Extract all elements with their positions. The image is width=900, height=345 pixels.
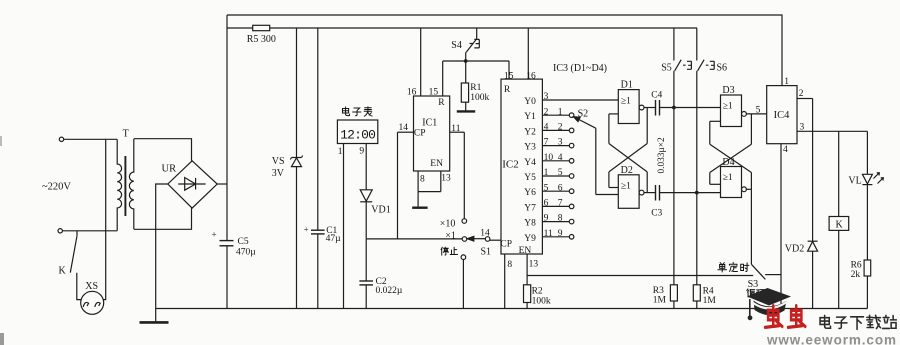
- svg-text:7: 7: [558, 199, 563, 209]
- svg-text:15: 15: [504, 71, 514, 81]
- svg-text:9: 9: [558, 229, 563, 239]
- svg-text:8: 8: [558, 214, 563, 224]
- watermark graduation cap: [747, 288, 791, 306]
- wire D4 output down to S3: [746, 188, 751, 190]
- svg-text:×1: ×1: [445, 231, 456, 242]
- wire IC1 pins 8,13 to ground: [417, 171, 419, 192]
- svg-text:1: 1: [558, 107, 563, 117]
- svg-text:R: R: [504, 85, 511, 95]
- S1 pole: [485, 237, 490, 242]
- wire IC2 pin8 to ground rail: [504, 254, 506, 309]
- svg-text:47µ: 47µ: [326, 234, 342, 244]
- svg-text:470µ: 470µ: [236, 247, 256, 257]
- svg-text:D3: D3: [722, 85, 734, 96]
- svg-text:VS: VS: [272, 156, 285, 167]
- D2 output bubble: [639, 190, 644, 195]
- relay K: [838, 131, 840, 216]
- svg-text:~220V: ~220V: [42, 182, 71, 193]
- svg-text:VD2: VD2: [785, 243, 804, 254]
- switch S6: [696, 28, 698, 61]
- wire S6 line down to R4: [696, 193, 698, 285]
- svg-text:+: +: [304, 224, 309, 234]
- svg-text:Y3: Y3: [524, 143, 536, 153]
- svg-text:4: 4: [783, 145, 788, 155]
- contact 9 of S2: [569, 235, 574, 240]
- svg-text:K: K: [59, 266, 67, 277]
- svg-text:Y4: Y4: [524, 158, 536, 168]
- svg-text:15: 15: [429, 88, 439, 98]
- wire clock pin9 to VD1: [365, 144, 367, 190]
- svg-text:13: 13: [441, 174, 451, 184]
- NOR gate D1: [618, 90, 639, 124]
- label tingzhi (stop): [441, 247, 448, 255]
- wire clock signal line to S1 x1 contact: [366, 238, 462, 240]
- wire left +V rail: [226, 15, 228, 241]
- diode VD2: [808, 240, 818, 242]
- LED arrows: [874, 173, 880, 179]
- svg-text:CP: CP: [414, 129, 426, 139]
- contact x10 of S1: [462, 219, 467, 224]
- wire IC1 pin16 to +V rail: [420, 28, 422, 96]
- svg-text:2k: 2k: [851, 270, 861, 280]
- contact stop of S1: [461, 255, 466, 260]
- resistor R4: [693, 285, 700, 301]
- capacitor C1: [317, 28, 319, 230]
- svg-text:12:00: 12:00: [340, 128, 375, 143]
- svg-text:IC2: IC2: [502, 158, 519, 170]
- switch S4: [476, 28, 478, 39]
- power rail top (unregulated +V to IC4 pin1): [227, 15, 782, 86]
- svg-text:EN: EN: [430, 159, 443, 169]
- svg-text:16: 16: [526, 71, 536, 81]
- svg-text:1: 1: [544, 168, 549, 178]
- wire secondary top to bridge: [134, 139, 192, 161]
- svg-text:T: T: [123, 128, 129, 139]
- svg-text:≥1: ≥1: [621, 96, 631, 106]
- contact 3 of S2: [569, 143, 574, 148]
- svg-text:2: 2: [558, 123, 563, 133]
- wire secondary bottom to bridge: [134, 208, 192, 229]
- svg-text:Y1: Y1: [524, 112, 536, 122]
- NOR gate D2: [618, 175, 639, 209]
- node C3/S6/R4: [695, 191, 699, 195]
- watermark text dianzi xiazai zhan: [820, 315, 830, 328]
- IC1 divider: [414, 96, 450, 171]
- wire XS socket right lead: [100, 139, 106, 299]
- capacitor C4: [655, 100, 657, 116]
- wire bridge minus to ground: [156, 184, 168, 309]
- svg-text:XS: XS: [85, 281, 98, 292]
- svg-text:13: 13: [529, 259, 539, 269]
- svg-text:R4: R4: [703, 286, 714, 296]
- transformer T core: [124, 156, 126, 216]
- watermark text chongchong: [765, 306, 782, 328]
- switch S3 blade: [751, 264, 765, 279]
- svg-text:IC1: IC1: [422, 117, 437, 128]
- contact 1 of S2: [569, 113, 574, 118]
- svg-text:0.022µ: 0.022µ: [376, 286, 403, 296]
- wire IC4 pin4 to ground rail: [780, 144, 782, 309]
- contact 6 of S2: [569, 189, 574, 194]
- scan edge marks: [0, 333, 4, 345]
- svg-text:R1: R1: [470, 83, 481, 93]
- svg-text:8: 8: [420, 174, 425, 184]
- wire +V rail (after R5): [227, 27, 253, 29]
- svg-text:≥1: ≥1: [723, 101, 733, 111]
- svg-text:D1: D1: [621, 80, 633, 91]
- wire IC2 pin16 to +V rail: [527, 28, 529, 79]
- svg-text:9: 9: [359, 147, 364, 157]
- svg-text:16: 16: [407, 88, 417, 98]
- D1 output bubble: [639, 105, 644, 110]
- svg-text:≥1: ≥1: [723, 173, 733, 183]
- svg-text:R5 300: R5 300: [247, 34, 276, 45]
- svg-text:5: 5: [756, 105, 761, 115]
- svg-text:S4: S4: [451, 40, 462, 51]
- D3 output bubble: [742, 112, 747, 117]
- resistor R3: [670, 285, 677, 301]
- resistor R1: [465, 61, 467, 83]
- transformer T primary: [117, 139, 121, 231]
- svg-text:VD1: VD1: [371, 205, 390, 216]
- wire IC4 pin3 output: [797, 130, 867, 132]
- svg-text:C3: C3: [651, 208, 662, 218]
- contact 5 of S2: [569, 174, 574, 179]
- svg-text:2: 2: [799, 89, 804, 99]
- S4 linkage symbol: [470, 39, 480, 48]
- svg-text:14: 14: [399, 123, 409, 133]
- svg-text:R3: R3: [653, 286, 664, 296]
- svg-text:IC3 (D1~D4): IC3 (D1~D4): [553, 63, 607, 74]
- svg-text:+: +: [212, 230, 217, 240]
- node S4 output: [464, 59, 468, 63]
- svg-text:3: 3: [558, 138, 563, 148]
- svg-text:www.eeworm.com: www.eeworm.com: [766, 333, 897, 345]
- wire IC4 pin2 to VD2: [797, 98, 813, 100]
- socket XS: [81, 291, 104, 314]
- svg-text:UR: UR: [162, 164, 177, 175]
- capacitor C3: [655, 185, 657, 201]
- resistor R6: [864, 260, 871, 276]
- svg-text:4: 4: [544, 123, 549, 133]
- svg-text:0.033µ×2: 0.033µ×2: [657, 137, 667, 174]
- svg-text:Y6: Y6: [524, 188, 536, 198]
- svg-text:R: R: [438, 98, 445, 108]
- wire C3 to D4 input: [660, 192, 721, 194]
- node C4/S5/R3: [672, 106, 676, 110]
- wire clock pin1 to ground rail: [343, 144, 345, 309]
- contact x1 of S1: [462, 237, 467, 242]
- ground under R1: [457, 110, 475, 112]
- svg-text:Y7: Y7: [524, 203, 536, 213]
- wire bridge plus to +V rail: [217, 183, 227, 185]
- S6 linkage symbol: [706, 61, 714, 69]
- svg-text:2: 2: [544, 107, 549, 117]
- svg-text:1: 1: [784, 77, 789, 87]
- svg-text:CP: CP: [500, 239, 512, 249]
- terminal L of ~220V input: [59, 137, 63, 141]
- svg-text:100k: 100k: [470, 93, 489, 103]
- svg-text:S3: S3: [748, 279, 759, 290]
- wire S1 pole to IC2 CP: [490, 239, 501, 241]
- svg-text:D4: D4: [722, 157, 734, 168]
- LED VL: [866, 131, 868, 174]
- S5 linkage symbol: [683, 61, 691, 69]
- wire stop contact to ground rail: [462, 260, 464, 309]
- label dandingshi (single timing): [718, 263, 727, 272]
- transformer T secondary: [129, 139, 133, 230]
- svg-text:IC4: IC4: [774, 110, 791, 121]
- svg-text:S1: S1: [481, 247, 492, 258]
- electronic clock block (dianzibiao): [337, 120, 377, 144]
- svg-text:C4: C4: [651, 90, 662, 100]
- svg-text:EN: EN: [519, 246, 532, 256]
- contact 2 of S2: [569, 128, 574, 133]
- capacitor C2: [365, 239, 367, 281]
- cross-coupling D1/D2: [609, 113, 618, 115]
- wire D1 output to C4: [644, 107, 656, 109]
- svg-text:Y8: Y8: [524, 219, 536, 229]
- svg-text:VL: VL: [848, 176, 861, 187]
- wire S5 line down to R3: [673, 108, 675, 285]
- svg-text:C5: C5: [238, 237, 249, 247]
- terminal N of ~220V input: [58, 229, 62, 233]
- svg-text:5: 5: [544, 183, 549, 193]
- label dianzibiao: [342, 107, 349, 116]
- svg-text:8: 8: [507, 260, 512, 270]
- svg-text:S5: S5: [661, 62, 672, 73]
- svg-text:K: K: [836, 219, 844, 230]
- wire D2 output to C3: [644, 192, 656, 194]
- IC2 decade counter: [501, 79, 542, 254]
- contact 8 of S2: [569, 219, 574, 224]
- wire C4 to D3 input: [660, 107, 721, 109]
- svg-text:Y2: Y2: [524, 127, 536, 137]
- svg-text:100k: 100k: [532, 296, 551, 306]
- wire S3 pole to IC4 pin4 line: [765, 274, 781, 276]
- switch S5: [673, 28, 675, 61]
- contact 7 of S2: [569, 204, 574, 209]
- svg-text:×10: ×10: [440, 218, 456, 229]
- svg-text:3V: 3V: [272, 168, 285, 179]
- IC4: [767, 86, 797, 144]
- wire IC2 pin13 EN node: [526, 254, 528, 276]
- switch K (relay contact): [76, 231, 78, 236]
- ground under IC1: [412, 206, 427, 208]
- ground main symbol: [155, 309, 157, 323]
- capacitor C5: [220, 240, 234, 242]
- wire S4 node to IC1 pin15 and IC2 pin15: [443, 60, 509, 62]
- svg-text:≥1: ≥1: [621, 182, 631, 192]
- wire EN line to S3 (single-timing): [527, 275, 753, 277]
- svg-text:1M: 1M: [653, 296, 667, 306]
- zener diode VS 3V: [296, 28, 298, 157]
- cross-coupling D3/D4: [710, 120, 721, 122]
- svg-text:Y9: Y9: [524, 234, 536, 244]
- D4 output bubble: [742, 187, 747, 192]
- svg-text:1M: 1M: [703, 296, 717, 306]
- svg-text:D2: D2: [621, 165, 633, 176]
- svg-text:Y0: Y0: [524, 97, 536, 107]
- svg-text:6: 6: [558, 183, 563, 193]
- NOR gate D4: [721, 167, 742, 198]
- svg-text:4: 4: [558, 153, 563, 163]
- wire IC1 pin14 CP input: [398, 131, 414, 133]
- svg-text:6: 6: [544, 199, 549, 209]
- wire from bottom terminal to transformer primary: [62, 230, 117, 232]
- bridge rectifier UR: [168, 161, 217, 208]
- switch S1 wiper arrow: [472, 238, 485, 240]
- svg-text:14: 14: [480, 228, 490, 238]
- resistor R2: [526, 276, 528, 285]
- wire from top terminal to transformer primary: [64, 138, 117, 140]
- wire IC1 pin11 to x10 contact: [450, 131, 465, 133]
- svg-text:R2: R2: [532, 286, 543, 296]
- contact 4 of S2: [569, 159, 574, 164]
- svg-text:5: 5: [558, 168, 563, 178]
- wire D3 output to IC4 pin5: [746, 113, 766, 115]
- NOR gate D3: [721, 95, 742, 127]
- wire ground bottom rail: [156, 308, 868, 310]
- diode VD1: [360, 190, 372, 201]
- label xunhuan (cycle): [747, 289, 755, 297]
- svg-text:R6: R6: [851, 260, 862, 270]
- svg-text:1: 1: [338, 147, 343, 157]
- svg-text:Y5: Y5: [524, 173, 536, 183]
- resistor R5: [253, 25, 270, 30]
- svg-text:S6: S6: [717, 62, 728, 73]
